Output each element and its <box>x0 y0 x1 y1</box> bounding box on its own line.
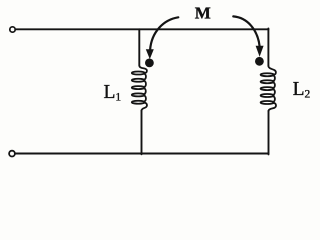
coupling arrow right arc <box>233 16 259 46</box>
svg-text:L2: L2 <box>293 79 311 101</box>
wire right branch upper <box>267 28 269 66</box>
wire right branch lower <box>268 111 270 155</box>
coupling arrow left arc <box>150 17 178 50</box>
coupling arrow left head <box>146 49 154 59</box>
L1 coil exit hook <box>142 103 147 111</box>
wire left branch lower <box>141 111 143 155</box>
wire bottom rail <box>16 153 269 155</box>
wire left branch upper <box>138 29 140 65</box>
L2 coil entry hook <box>268 66 276 75</box>
L2 coil exit hook <box>269 103 276 111</box>
inductor L2 coil turns <box>261 73 275 104</box>
coupling arrow right head <box>256 46 264 57</box>
svg-text:M: M <box>195 4 211 23</box>
svg-text:L1: L1 <box>104 82 122 104</box>
wire top rail <box>16 28 268 30</box>
polarity dot for L1 <box>145 59 154 68</box>
L1 coil entry hook <box>139 66 147 74</box>
inductor L1 coil turns <box>132 72 146 104</box>
polarity dot for L2 <box>255 57 264 66</box>
terminal T2 bottom-left <box>9 151 15 157</box>
terminal T1 top-left <box>10 27 15 32</box>
